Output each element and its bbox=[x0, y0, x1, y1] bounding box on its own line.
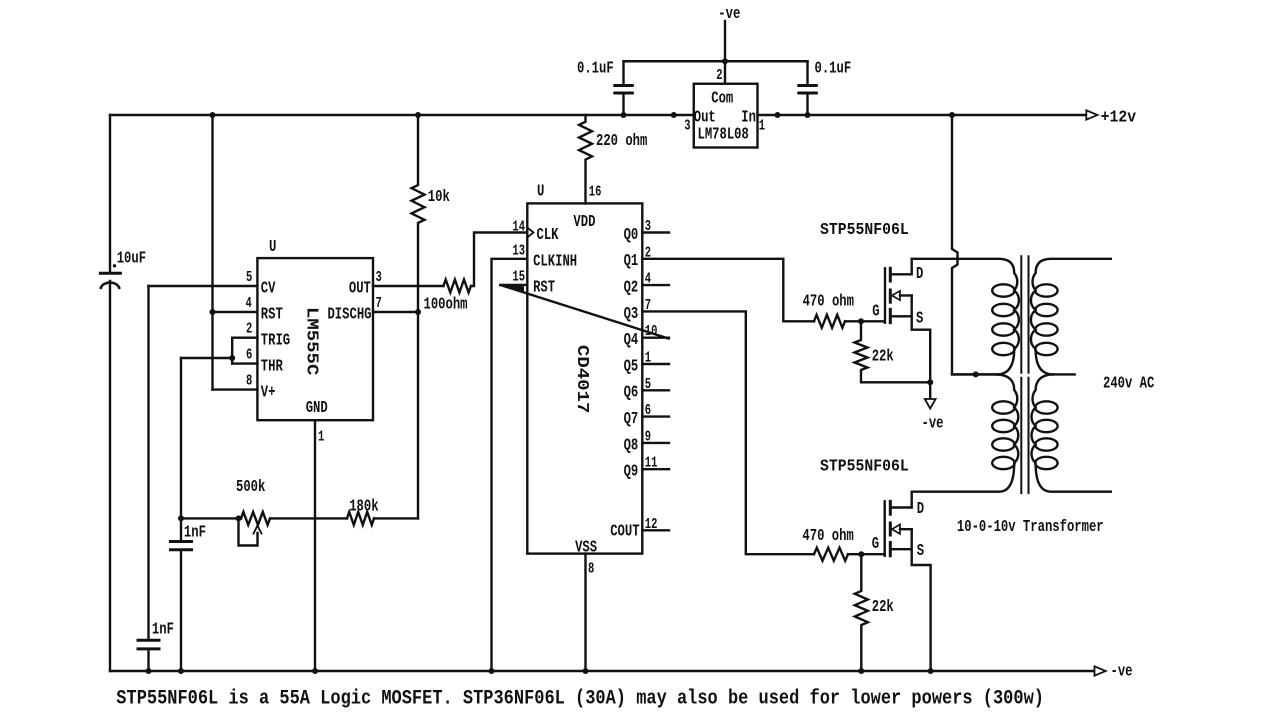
svg-text:-ve: -ve bbox=[718, 5, 740, 23]
svg-text:DISCHG: DISCHG bbox=[327, 306, 371, 324]
transformer core line left bbox=[1020, 256, 1022, 493]
svg-text:22k: 22k bbox=[872, 598, 894, 616]
wire RST pin15 stub bbox=[500, 284, 527, 286]
junction rail/C1 bbox=[621, 112, 627, 118]
svg-text:CLKINH: CLKINH bbox=[533, 253, 577, 271]
wire +12v rail left segment bbox=[110, 114, 694, 116]
wire pot feed bbox=[181, 517, 241, 519]
wire left bus top (from rail) bbox=[109, 115, 111, 273]
wire Q2 stub bbox=[642, 284, 669, 286]
capacitor C4 1nF (left) symbol bbox=[138, 640, 159, 671]
svg-text:D: D bbox=[917, 500, 924, 518]
svg-text:3: 3 bbox=[684, 117, 690, 134]
node -ve arrow (bottom right) bbox=[1095, 666, 1106, 675]
capacitor C2 0.1uF right symbol bbox=[799, 61, 817, 115]
transformer secondary upper loops bbox=[1035, 284, 1057, 355]
svg-text:1: 1 bbox=[759, 117, 765, 134]
wire TRIG-THR bracket bbox=[231, 338, 233, 364]
wire timing node into bracket bbox=[181, 357, 232, 359]
clock input triangle bbox=[527, 228, 533, 238]
svg-text:D: D bbox=[916, 265, 923, 283]
regulator U3 LM78L08 box bbox=[694, 84, 758, 148]
transformer secondary upper winding bbox=[1031, 259, 1111, 375]
svg-text:1nF: 1nF bbox=[184, 524, 206, 542]
transformer core line right bbox=[1028, 256, 1030, 493]
junction rail/reg pin1 bbox=[775, 112, 781, 118]
junction rail x=181 bbox=[178, 668, 184, 674]
wire RST-to-Q4 diagonal bbox=[500, 285, 668, 339]
wire RST pin4 bbox=[213, 311, 258, 313]
wire Q5 stub bbox=[642, 363, 669, 365]
junction rail x=148.5 bbox=[146, 668, 152, 674]
wire Q1 to top gate resistor bbox=[642, 259, 814, 322]
resistor R7 22k (top) bbox=[855, 321, 931, 382]
transistor Q1 MOSFET symbol (top) bbox=[885, 259, 930, 399]
svg-text:CLK: CLK bbox=[537, 226, 559, 244]
svg-text:Out: Out bbox=[694, 109, 716, 127]
wire DISCHG to 10k bbox=[373, 311, 418, 313]
junction rail/reg pin3 bbox=[671, 112, 677, 118]
svg-text:2: 2 bbox=[246, 320, 252, 337]
svg-text:Q5: Q5 bbox=[624, 358, 639, 376]
junction rail/10k bbox=[415, 112, 421, 118]
svg-text:8: 8 bbox=[246, 372, 252, 389]
wire THR pin6 stub bbox=[232, 362, 257, 364]
svg-text:Q3: Q3 bbox=[624, 305, 639, 323]
wire Q9 stub bbox=[642, 468, 669, 470]
svg-text:7: 7 bbox=[376, 294, 382, 311]
wire Q4 stub bbox=[642, 337, 669, 339]
svg-text:G: G bbox=[872, 303, 879, 321]
wire V+ pin8 bbox=[213, 388, 258, 390]
wire TRIG pin2 stub bbox=[232, 337, 257, 339]
junction source/-ve (top) bbox=[927, 379, 933, 385]
wire OUT pin3 to 100ohm bbox=[373, 285, 443, 287]
svg-text:Q1: Q1 bbox=[624, 253, 639, 271]
svg-text:14: 14 bbox=[512, 218, 525, 235]
transformer primary lower loops bbox=[992, 401, 1014, 469]
junction rail/transformer feed bbox=[949, 112, 955, 118]
wire bypass-cap top bus bbox=[624, 60, 808, 62]
svg-text:CD4017: CD4017 bbox=[572, 345, 591, 414]
svg-text:RST: RST bbox=[261, 306, 283, 324]
transformer primary upper winding bbox=[912, 259, 1019, 375]
transformer secondary lower loops bbox=[1035, 401, 1057, 469]
wire Q3 to bottom gate resistor bbox=[642, 311, 814, 554]
wire CV pin5 bbox=[149, 285, 258, 287]
svg-text:G: G bbox=[872, 535, 879, 553]
resistor R1 10k bbox=[412, 115, 425, 312]
wire pot to 180k bbox=[270, 517, 347, 519]
svg-text:+12v: +12v bbox=[1101, 108, 1137, 127]
svg-text:Q6: Q6 bbox=[624, 384, 639, 402]
junction rail x=585.5 bbox=[583, 668, 589, 674]
junction rail x=491.5 bbox=[489, 668, 495, 674]
svg-text:VDD: VDD bbox=[573, 213, 595, 231]
polarity mark for 10uF bbox=[113, 264, 116, 267]
node +12v arrow bbox=[1086, 110, 1097, 119]
svg-text:S: S bbox=[916, 310, 923, 328]
svg-text:Q2: Q2 bbox=[624, 279, 639, 297]
svg-text:4: 4 bbox=[246, 294, 252, 311]
junction rail x=315 bbox=[312, 668, 318, 674]
svg-text:Q8: Q8 bbox=[624, 437, 639, 455]
capacitor C1 0.1uF left symbol bbox=[615, 61, 633, 115]
svg-text:180k: 180k bbox=[349, 498, 378, 516]
svg-text:13: 13 bbox=[512, 242, 525, 259]
svg-text:OUT: OUT bbox=[349, 280, 371, 298]
svg-text:LM78L08: LM78L08 bbox=[698, 126, 749, 144]
wire -ve bottom rail bbox=[110, 670, 1095, 672]
svg-text:Q4: Q4 bbox=[624, 331, 639, 349]
wire GND pin1 vertical bbox=[314, 420, 316, 671]
capacitor C5 1nF (timing) symbol bbox=[171, 542, 192, 672]
transformer primary upper loops bbox=[992, 284, 1014, 355]
transformer primary lower winding bbox=[912, 374, 1019, 491]
svg-text:1nF: 1nF bbox=[152, 621, 174, 639]
junction rail x=861.3 bbox=[858, 668, 864, 674]
junction bracket/timing wire bbox=[229, 355, 235, 361]
svg-text:22k: 22k bbox=[872, 348, 894, 366]
svg-text:220 ohm: 220 ohm bbox=[596, 132, 647, 150]
junction pot left terminal bbox=[236, 515, 242, 521]
svg-text:6: 6 bbox=[246, 346, 252, 363]
svg-text:5: 5 bbox=[246, 268, 252, 285]
svg-text:2: 2 bbox=[716, 66, 722, 83]
wire 555 supply vertical bbox=[211, 115, 213, 390]
resistor R4 180k bbox=[347, 512, 374, 525]
wire 470ohm to gate (bottom) bbox=[848, 553, 885, 555]
junction gate/22k (bottom) bbox=[858, 551, 864, 557]
potentiometer R3 500k bbox=[241, 512, 270, 525]
svg-text:STP55NF06L is a 55A Logic MOSF: STP55NF06L is a 55A Logic MOSFET. STP36N… bbox=[116, 687, 1044, 710]
wire regulator pin2 stub bbox=[724, 61, 726, 84]
junction rail x=930.6 bbox=[928, 668, 934, 674]
arrowhead on RST diagonal bbox=[501, 285, 525, 292]
counter U2 CD4017 box bbox=[527, 203, 642, 553]
svg-text:COUT: COUT bbox=[610, 523, 639, 541]
svg-text:1: 1 bbox=[318, 428, 324, 445]
wire Q0 stub bbox=[642, 231, 669, 233]
junction timing cap / pot wire bbox=[178, 515, 184, 521]
capacitor C3 10uF electrolytic bbox=[100, 273, 120, 671]
wire -ve input vertical to pin 2 net bbox=[724, 21, 726, 61]
wire Q7 stub bbox=[642, 415, 669, 417]
resistor R8 470ohm (bottom) bbox=[814, 548, 848, 561]
junction gate/22k (top) bbox=[858, 318, 864, 324]
svg-text:10k: 10k bbox=[428, 188, 450, 206]
svg-text:-ve: -ve bbox=[1111, 663, 1133, 681]
svg-text:240v AC: 240v AC bbox=[1103, 375, 1154, 393]
wire CLKINH pin13 bbox=[492, 259, 528, 671]
junction center tap bbox=[973, 371, 979, 377]
svg-text:3: 3 bbox=[376, 268, 382, 285]
svg-text:-ve: -ve bbox=[922, 415, 944, 433]
wire THR/TRIG net vertical bbox=[180, 358, 182, 540]
svg-text:16: 16 bbox=[589, 183, 602, 200]
svg-text:RST: RST bbox=[533, 279, 555, 297]
transistor Q2 MOSFET symbol (bottom) bbox=[885, 492, 931, 671]
wire Q6 stub bbox=[642, 389, 669, 391]
svg-text:500k: 500k bbox=[236, 478, 265, 496]
wire Q8 stub bbox=[642, 442, 669, 444]
svg-text:Q7: Q7 bbox=[624, 410, 639, 428]
wire 470ohm to gate bbox=[845, 320, 885, 322]
pot wiper arm bbox=[239, 518, 258, 545]
transformer secondary lower winding bbox=[1032, 374, 1111, 491]
svg-text:0.1uF: 0.1uF bbox=[815, 60, 852, 78]
wire +12v rail right segment bbox=[758, 114, 1087, 116]
svg-text:0.1uF: 0.1uF bbox=[577, 60, 614, 78]
wire CV net vertical bbox=[147, 286, 149, 639]
ground -ve arrow (top fet) bbox=[925, 399, 936, 409]
svg-text:470 ohm: 470 ohm bbox=[802, 527, 853, 545]
svg-text:S: S bbox=[917, 542, 924, 560]
svg-text:8: 8 bbox=[588, 560, 594, 577]
wire 100ohm to CLK corner bbox=[471, 233, 527, 287]
svg-text:U: U bbox=[537, 183, 544, 201]
svg-text:THR: THR bbox=[261, 358, 283, 376]
svg-text:470 ohm: 470 ohm bbox=[803, 293, 854, 311]
svg-text:Q9: Q9 bbox=[624, 463, 639, 481]
svg-text:In: In bbox=[741, 109, 756, 127]
junction RST/supply bbox=[210, 309, 216, 315]
svg-text:10-0-10v Transformer: 10-0-10v Transformer bbox=[957, 518, 1104, 536]
svg-text:CV: CV bbox=[261, 280, 276, 298]
svg-text:V+: V+ bbox=[261, 384, 276, 402]
svg-text:TRIG: TRIG bbox=[261, 332, 290, 350]
svg-text:Com: Com bbox=[711, 90, 733, 108]
wire +12v to center tap (with hop) bbox=[952, 115, 997, 374]
svg-text:100ohm: 100ohm bbox=[424, 296, 468, 314]
wire 180k to 10k net bbox=[374, 517, 418, 519]
junction rail/C2 bbox=[805, 112, 811, 118]
resistor R2 100ohm bbox=[443, 280, 471, 293]
svg-text:Q0: Q0 bbox=[624, 226, 639, 244]
wire 10k net down to 180k bbox=[417, 312, 419, 518]
svg-text:15: 15 bbox=[512, 268, 525, 285]
svg-text:STP55NF06L: STP55NF06L bbox=[820, 457, 909, 476]
svg-text:LM555C: LM555C bbox=[302, 307, 321, 376]
svg-text:10uF: 10uF bbox=[117, 250, 146, 268]
resistor R6 470ohm (top) bbox=[814, 315, 845, 328]
op-amp U1 LM555C box bbox=[257, 258, 373, 420]
svg-text:GND: GND bbox=[306, 399, 328, 417]
junction DISCHG/10k bbox=[415, 309, 421, 315]
wire COUT stub bbox=[642, 529, 669, 531]
svg-text:STP55NF06L: STP55NF06L bbox=[820, 220, 909, 239]
svg-text:U: U bbox=[269, 238, 276, 256]
resistor R5 220ohm bbox=[579, 115, 592, 203]
wire VSS pin8 vertical bbox=[584, 554, 586, 671]
resistor R9 22k (bottom) bbox=[855, 554, 868, 671]
junction at -ve / cap bus bbox=[722, 58, 728, 64]
junction rail/555 supply bbox=[210, 112, 216, 118]
